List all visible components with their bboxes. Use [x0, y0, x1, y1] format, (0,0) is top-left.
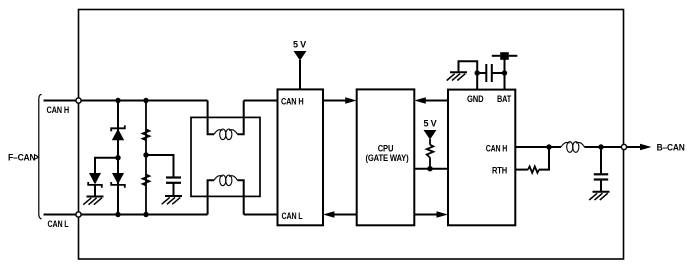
node R branch bottom [143, 212, 148, 217]
node termination mid [143, 152, 148, 157]
svg-text:BAT: BAT [497, 94, 511, 104]
svg-text:F–CAN: F–CAN [8, 153, 36, 164]
wire choke bottom-out [238, 180, 244, 214]
wire CAN H left segment [44, 100, 208, 102]
wire B-CAN out with arrow [627, 144, 652, 151]
outer border box [79, 10, 624, 260]
wire GND bump to ground [459, 61, 478, 72]
power 5V for U1 [293, 40, 307, 90]
wire CPU TX to U3 with arrow [414, 211, 448, 218]
svg-text:RTH: RTH [492, 166, 507, 176]
svg-text:(GATE WAY): (GATE WAY) [366, 153, 409, 163]
common-mode choke box [191, 117, 260, 196]
wire zener branch vertical [117, 101, 119, 215]
svg-text:CPU: CPU [378, 144, 394, 154]
wire CAN H to transceiver [244, 100, 278, 102]
svg-text:CAN H: CAN H [47, 105, 70, 115]
capacitor C1 [166, 178, 181, 197]
node C3 junction [598, 144, 603, 149]
wire CPU TX to U1 with arrow [323, 211, 357, 218]
wire U1 RX to CPU with arrow [323, 97, 357, 104]
zener diode D1 up [111, 125, 125, 140]
wire CAN L left segment [44, 214, 208, 216]
inductor L3 [561, 142, 585, 153]
wire BAT pin [504, 73, 506, 90]
battery terminal square [492, 52, 518, 73]
wire choke top-out [238, 101, 244, 135]
node zener mid junction [115, 155, 120, 160]
node GND junction [475, 70, 480, 75]
node R branch top [143, 98, 148, 103]
resistor R2 [143, 175, 150, 186]
node zener top junction [115, 98, 120, 103]
node zener bottom junction [115, 212, 120, 217]
ground under C3 [589, 192, 609, 200]
svg-text:CAN L: CAN L [282, 211, 303, 221]
node pull-up junction [427, 166, 432, 171]
wire RTH riser [539, 147, 549, 170]
inductor L1 top coil [214, 129, 238, 140]
wire termination branch vertical [145, 101, 147, 215]
transceiver U3 box [448, 90, 515, 226]
inductor L2 bottom coil [214, 175, 238, 186]
wire U3 RX to CPU with arrow [414, 97, 448, 104]
ground under D2 [83, 197, 103, 205]
svg-text:GND: GND [467, 94, 484, 104]
CPU U2 box [357, 89, 415, 225]
svg-text:5 V: 5 V [293, 40, 307, 51]
capacitor C2 [477, 64, 504, 82]
resistor R3 [528, 166, 539, 172]
node CAN L border terminal [76, 212, 81, 217]
svg-text:CAN H: CAN H [486, 144, 508, 154]
svg-text:CAN H: CAN H [281, 96, 304, 106]
node B-CAN border terminal [621, 144, 626, 149]
wire choke top-in [208, 101, 214, 135]
svg-text:CAN L: CAN L [48, 219, 69, 229]
power 5V pull-up [424, 119, 438, 169]
capacitor C3 [594, 147, 608, 192]
ground under C1 [162, 196, 182, 204]
wire GND pin up [476, 72, 478, 90]
wire to capacitor C1 [146, 155, 174, 177]
node CAN H border terminal [76, 98, 81, 103]
transceiver U1 box [278, 89, 324, 225]
wire CPU standby line [414, 168, 448, 170]
wire to left zener [95, 158, 118, 173]
resistor R1 [143, 129, 150, 140]
svg-text:5 V: 5 V [424, 119, 438, 130]
node RTH junction [546, 144, 551, 149]
node BAT junction [502, 70, 507, 75]
svg-text:B–CAN: B–CAN [657, 142, 685, 153]
wire L3 to border [585, 146, 622, 148]
wire CAN L to transceiver [244, 214, 278, 216]
ground at U3 GND [447, 72, 467, 80]
zener diode D3 down (in series to CAN L) [111, 173, 125, 188]
zener diode D2 down (left, to ground) [88, 173, 102, 197]
wire choke bottom-in [208, 180, 214, 214]
wire RTH [515, 169, 528, 171]
F-CAN bracket [39, 94, 42, 219]
wire CAN H out [515, 146, 561, 148]
